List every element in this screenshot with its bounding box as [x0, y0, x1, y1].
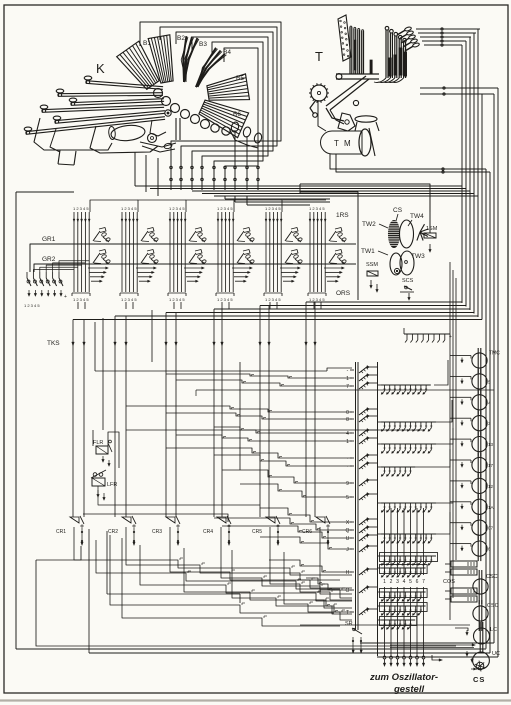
svg-text:TMC: TMC: [489, 351, 500, 357]
svg-text:B2: B2: [177, 35, 185, 42]
comb row y568: [380, 565, 428, 574]
relay group 4 bottom terminal: [216, 292, 234, 294]
svg-text:1 2 3 4 5: 1 2 3 4 5: [73, 297, 89, 302]
right-side vertical bus wires: [461, 45, 463, 303]
contact segment block: [150, 120, 166, 136]
svg-text:7: 7: [346, 384, 349, 390]
transfer linkage: [140, 142, 176, 147]
comb output links: [434, 360, 448, 385]
svg-text:CS: CS: [473, 675, 485, 684]
fan B4: [196, 48, 216, 87]
comb row y385: [381, 384, 431, 386]
svg-text:+: +: [64, 294, 67, 300]
bus corners turning left into relay group returns: [306, 301, 462, 303]
horizontal mid collectors: [196, 389, 494, 391]
svg-text:+: +: [449, 334, 452, 340]
inner left return wire: [36, 560, 456, 646]
svg-text:CR6: CR6: [302, 529, 312, 535]
svg-text:1 2 3 4 5: 1 2 3 4 5: [169, 297, 185, 302]
svg-text:TW2: TW2: [362, 221, 376, 228]
bus feeding relay groups: [225, 198, 330, 200]
svg-text:CR4: CR4: [203, 529, 213, 535]
svg-text:1: 1: [383, 579, 386, 585]
comb row y467: [381, 466, 415, 468]
bottom distribution lines: [300, 624, 470, 626]
comb row y534: [381, 533, 436, 535]
svg-text:zum Oszillator-: zum Oszillator-: [369, 672, 438, 683]
comb row y556: [380, 553, 438, 562]
svg-text:FLR: FLR: [93, 440, 103, 446]
group selector line GR2: [63, 263, 356, 265]
svg-text:1 2 3 4 5: 1 2 3 4 5: [121, 297, 137, 302]
relay group 3 output arrows: [184, 267, 203, 269]
svg-text:7: 7: [422, 579, 425, 585]
selector magnet 6: [472, 541, 487, 556]
relay group 5 feed link: [282, 200, 326, 212]
left code contact bank: [30, 244, 63, 272]
relay group 1 output arrows: [88, 267, 107, 269]
svg-text:CS: CS: [393, 207, 403, 214]
svg-text:CR2: CR2: [108, 529, 118, 535]
svg-text:1: 1: [346, 376, 349, 382]
escapement star: [420, 224, 425, 232]
comb row y606: [380, 603, 428, 612]
svg-text:8: 8: [346, 417, 349, 423]
relay group 6 bottom terminal: [308, 292, 326, 294]
svg-text:GR1: GR1: [42, 236, 56, 243]
relay group 2 contacts: [141, 231, 148, 241]
svg-text:Q: Q: [346, 528, 350, 534]
svg-text:LC: LC: [490, 627, 497, 633]
svg-text:COS: COS: [443, 579, 455, 585]
group drop verticals with TKS arrows: [72, 320, 74, 518]
svg-text:LFR: LFR: [107, 482, 117, 488]
svg-text:1: 1: [346, 439, 349, 445]
feed gear: [311, 85, 327, 101]
svg-text:2: 2: [390, 579, 393, 585]
svg-text:SSM: SSM: [366, 262, 378, 268]
svg-text:O: O: [346, 588, 350, 594]
svg-text:17: 17: [488, 463, 494, 468]
svg-text:ORS: ORS: [336, 290, 351, 297]
left bank loop wires: [33, 270, 74, 273]
K frame leg wires: [134, 152, 136, 186]
relay group 3 feed link: [186, 200, 234, 212]
magnet feeds from bus: [450, 355, 458, 357]
svg-text:3: 3: [396, 579, 399, 585]
toothed wheel: [389, 221, 400, 248]
svg-text:1RS: 1RS: [336, 212, 349, 219]
relay group 6 feed link: [313, 302, 315, 309]
svg-text:0: 0: [346, 410, 349, 416]
svg-text:07: 07: [488, 526, 494, 531]
staircase wires to code rows: [166, 374, 352, 378]
svg-text:T: T: [315, 49, 323, 64]
comb row y422: [381, 421, 436, 423]
svg-text:CR1: CR1: [56, 529, 66, 535]
relay group 4 output arrows: [232, 267, 251, 269]
svg-text:1 2 3 4 5: 1 2 3 4 5: [217, 206, 233, 211]
keyboard base plate: [34, 118, 112, 150]
selector magnet 12: [472, 478, 487, 493]
selector magnet 13: [472, 437, 487, 452]
svg-text:B1: B1: [143, 40, 151, 47]
code bus verticals: [355, 362, 357, 630]
svg-text:1 2 3 4 5: 1 2 3 4 5: [24, 303, 40, 308]
distributor drop wires from K: [170, 166, 172, 190]
svg-text:1 2 3 4 5: 1 2 3 4 5: [309, 297, 325, 302]
relay group 4 contacts: [237, 231, 244, 241]
extra bus vertical: [481, 94, 483, 320]
top comb above TMC: [404, 333, 450, 335]
code channel stack: [385, 30, 387, 78]
svg-text:SR: SR: [345, 621, 353, 627]
gear crank: [310, 100, 316, 114]
svg-text:1 2 3 4 5: 1 2 3 4 5: [169, 206, 185, 211]
relay group 5 contacts: [285, 231, 292, 241]
CSC comb boxes: [451, 561, 477, 567]
LC UC feed wires: [455, 628, 468, 631]
svg-text:K: K: [96, 61, 105, 76]
svg-text:U: U: [346, 536, 350, 542]
keyboard base legs: [58, 150, 60, 164]
selector magnet 4: [472, 395, 487, 410]
key levers with knobs: [84, 76, 92, 80]
perforated code plate: [338, 15, 351, 61]
fan B2: [148, 35, 173, 83]
selector magnet 17: [472, 457, 487, 472]
selector magnet TMC: [472, 353, 487, 368]
svg-text:T M: T M: [334, 139, 352, 148]
relay group 2 bottom terminal: [120, 292, 138, 294]
svg-text:5: 5: [409, 579, 412, 585]
wires K lower segments: [234, 130, 236, 152]
CR relay staircase loops: [74, 527, 352, 575]
selector comb rods: [349, 27, 351, 74]
svg-text:13: 13: [488, 442, 494, 447]
svg-text:T: T: [346, 610, 349, 616]
svg-text:TW4: TW4: [410, 213, 424, 220]
svg-text:CSC: CSC: [486, 574, 498, 580]
printer crank wire: [318, 100, 326, 131]
selector magnet 3: [472, 416, 487, 431]
relay group 1 bottom terminal: [72, 292, 90, 294]
LFR lower wire: [98, 486, 137, 505]
relay group 1 contacts: [93, 231, 100, 241]
svg-text:1A: 1A: [488, 505, 494, 510]
svg-text:CR3: CR3: [152, 529, 162, 535]
comb row y592: [380, 589, 428, 598]
svg-text:GR2: GR2: [42, 256, 56, 263]
fan B6: [199, 100, 249, 138]
segment links to drop wires: [230, 121, 239, 132]
selector magnet 5: [472, 374, 487, 389]
group selector line GR1: [63, 243, 356, 245]
comb row y620: [380, 617, 417, 626]
svg-text:1 2 3 4 5: 1 2 3 4 5: [217, 297, 233, 302]
long horizontal collectors: [126, 429, 424, 431]
left long return wire: [15, 192, 17, 649]
wires from segment fans B1-B6 to distributor bank: [140, 22, 281, 190]
svg-text:TKS: TKS: [47, 340, 60, 347]
fan B3: [183, 36, 186, 82]
svg-text:1 2 3 4 5: 1 2 3 4 5: [121, 206, 137, 211]
lever rails: [86, 83, 163, 89]
svg-text:5: 5: [346, 495, 349, 501]
diagonal lever: [326, 76, 366, 106]
svg-text:SCS: SCS: [402, 278, 414, 284]
upper taps of outer bus: [420, 93, 494, 95]
fan B5: [207, 74, 250, 100]
svg-text:6: 6: [416, 579, 419, 585]
svg-text:1 2 3 4 5: 1 2 3 4 5: [309, 206, 325, 211]
svg-text:9: 9: [346, 481, 349, 487]
svg-text:CR5: CR5: [252, 529, 262, 535]
hub knuckle chain: [154, 89, 163, 98]
gear drive shaft wire: [429, 192, 431, 233]
main rocker arm: [336, 73, 379, 75]
relay group 6 contacts: [329, 231, 336, 241]
comb row y503: [381, 502, 436, 504]
printer output wires to right bus: [416, 28, 480, 30]
svg-text:TW1: TW1: [361, 248, 375, 255]
selector magnet 07: [472, 520, 487, 535]
relay group 3 bottom terminal: [168, 292, 186, 294]
relay group 1 feed link: [90, 200, 138, 212]
svg-text:UC: UC: [492, 651, 500, 657]
smooth wheel TW4: [400, 220, 414, 248]
relay group 4 feed link: [234, 200, 282, 212]
junction terminals row: [170, 166, 173, 169]
armature dark bars: [399, 48, 402, 75]
selector magnet 1A: [472, 499, 487, 514]
horizontal bus from K to right side: [135, 185, 462, 187]
TM wires down and right: [330, 154, 443, 169]
printer magnet TM: [321, 131, 363, 154]
relay group 2 feed link: [138, 200, 186, 212]
fan B1: [117, 41, 160, 89]
relay group 5 bottom terminal: [264, 292, 282, 294]
lower linkage: [326, 108, 344, 121]
svg-text:B5: B5: [236, 75, 244, 82]
svg-text:4: 4: [403, 579, 406, 585]
pushrod pins with round tips: [404, 26, 412, 31]
svg-text:4: 4: [346, 431, 349, 437]
relay group 3 contacts: [189, 231, 196, 241]
outer bus bottom returns: [16, 648, 486, 650]
relay group 2 output arrows: [136, 267, 155, 269]
svg-text:CSC: CSC: [487, 603, 499, 609]
svg-text:gestell: gestell: [393, 684, 424, 695]
platen: [355, 116, 377, 122]
svg-text:12: 12: [488, 484, 494, 489]
bottom scan edge line: [0, 699, 511, 701]
svg-text:1 2 3 4 5: 1 2 3 4 5: [265, 206, 281, 211]
CR1 CR2 return verticals: [88, 529, 90, 653]
svg-text:1 2 3 4 5: 1 2 3 4 5: [265, 297, 281, 302]
outer right bus wires: [485, 169, 487, 648]
cascade corner ticks: [180, 557, 183, 559]
FLR loop wire: [108, 432, 119, 468]
svg-text:1 2 3 4 5: 1 2 3 4 5: [73, 206, 89, 211]
svg-text:B6: B6: [233, 111, 241, 118]
long distribution verticals: [102, 318, 104, 430]
comb row y444: [381, 443, 436, 445]
oscillator trunk verticals 1-7: [384, 508, 386, 575]
relay group 5 output arrows: [280, 267, 299, 269]
svg-text:1SM: 1SM: [426, 226, 438, 232]
band frame wires: [300, 184, 430, 212]
trunk bend wire: [432, 655, 440, 660]
commutator CS at bottom: [476, 662, 484, 670]
bus wires along magnet column: [449, 262, 451, 620]
svg-text:B3: B3: [199, 41, 207, 48]
row C long feed: [94, 322, 96, 371]
relay group 6 output arrows: [324, 267, 343, 269]
